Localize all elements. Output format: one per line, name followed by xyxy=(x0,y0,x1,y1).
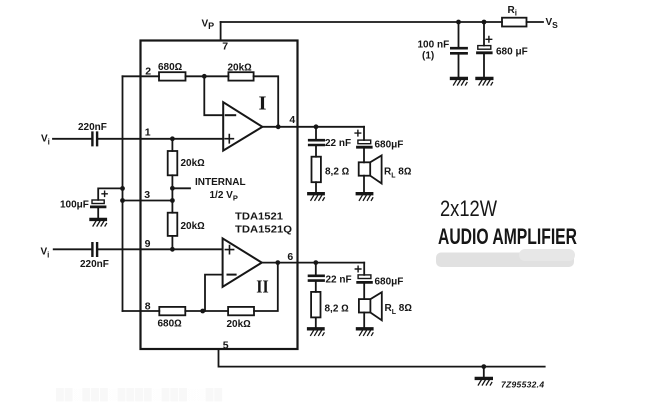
svg-text:2: 2 xyxy=(145,66,151,78)
resistor 8.2ohm ch1 xyxy=(312,157,321,183)
speaker RL ch2 xyxy=(359,292,382,320)
wire: 680 to 20k pin8 row xyxy=(185,310,228,312)
wire: inverting input op-amp I xyxy=(204,76,223,115)
svg-text:220nF: 220nF xyxy=(80,259,109,270)
node: pin3 junction at 20k xyxy=(170,198,175,203)
minus sign op-amp II xyxy=(228,274,236,276)
wire: pin 5 to bottom rail xyxy=(219,349,545,367)
svg-text:100μF: 100μF xyxy=(60,200,89,211)
svg-text:I: I xyxy=(259,93,267,115)
resistor Ri xyxy=(502,18,527,27)
wire: 20k v1 bottom lead to pin3 xyxy=(171,175,173,200)
ground: under 680uF top xyxy=(477,78,493,85)
wire: pin 2 row into 680ohm xyxy=(123,75,160,77)
svg-text:II: II xyxy=(256,277,268,297)
node: pin3 junction on bus xyxy=(120,198,125,203)
wire: speaker ch2 to ground xyxy=(363,313,365,328)
svg-text:8: 8 xyxy=(145,300,151,312)
svg-text:(1): (1) xyxy=(422,51,434,62)
svg-text:6: 6 xyxy=(287,251,293,263)
svg-text:RL 8Ω: RL 8Ω xyxy=(385,303,413,316)
svg-text:1: 1 xyxy=(145,126,151,138)
svg-text:8,2 Ω: 8,2 Ω xyxy=(325,166,350,177)
wire: internal stub xyxy=(172,187,190,189)
node: pin1 / 20k junction xyxy=(170,136,175,141)
wire: input Vi2 row xyxy=(54,248,223,250)
node: internal half-Vp node xyxy=(170,186,175,191)
svg-text:1/2 VP: 1/2 VP xyxy=(210,190,238,203)
capacitor 22nF ch2 xyxy=(309,276,324,281)
svg-text:RL 8Ω: RL 8Ω xyxy=(384,167,412,180)
svg-text:680 μF: 680 μF xyxy=(496,46,528,57)
capacitor 680uF top (electrolytic) xyxy=(478,37,492,53)
wire: ground stem bottom xyxy=(483,367,485,378)
wire: pin 7 drop xyxy=(220,22,222,41)
capacitor 220nF ch2 xyxy=(92,243,97,256)
node: output I zobel junction xyxy=(314,124,319,129)
wire: output I row xyxy=(262,126,364,128)
node: output II feedback junction xyxy=(275,260,280,265)
resistor 20k vertical 2 xyxy=(168,213,178,236)
wire: 100uF to ground xyxy=(97,208,99,219)
wire: speaker ch1 to ground xyxy=(363,176,365,193)
node: 100uF junction on bus xyxy=(120,186,125,191)
wire: input Vi1 row xyxy=(53,138,223,140)
wire: top supply rail Vp xyxy=(221,21,543,23)
wire: inverting input op-amp II xyxy=(205,275,223,311)
svg-text:7Z95532.4: 7Z95532.4 xyxy=(501,380,544,390)
ground: speaker ch1 xyxy=(357,194,373,201)
capacitor 680uF ch1 (electrolytic) xyxy=(355,130,371,147)
capacitor 680uF ch2 (electrolytic) xyxy=(355,266,371,282)
svg-text:3: 3 xyxy=(144,189,150,201)
svg-text:680μF: 680μF xyxy=(375,277,404,288)
svg-text:680Ω: 680Ω xyxy=(158,319,183,330)
ground: under 100nF xyxy=(452,78,468,85)
svg-text:20kΩ: 20kΩ xyxy=(181,158,206,169)
minus sign op-amp I xyxy=(226,114,235,116)
wire: feedback right to output column xyxy=(254,76,279,127)
wire: 20k v2 bottom to pin9 xyxy=(171,236,173,249)
ground: zobel ch1 xyxy=(309,194,325,201)
node: junction top rail / 680uF xyxy=(482,20,487,25)
wire: left vertical bus x=122.5 xyxy=(122,76,124,311)
ground: speaker ch2 xyxy=(358,329,374,336)
wire: 680uF ch2 drop xyxy=(363,263,365,300)
node: pin9 junction xyxy=(170,247,175,252)
IC box TDA1521 xyxy=(141,41,298,350)
speaker RL ch1 xyxy=(359,155,382,183)
watermark gray block xyxy=(436,253,574,268)
svg-text:2x12W: 2x12W xyxy=(440,196,497,221)
svg-text:20kΩ: 20kΩ xyxy=(181,221,206,232)
svg-text:INTERNAL: INTERNAL xyxy=(195,177,246,188)
capacitor 100uF (electrolytic) xyxy=(91,191,107,207)
svg-text:8,2 Ω: 8,2 Ω xyxy=(325,304,350,315)
resistor 20k vertical 1 xyxy=(168,151,178,175)
op-amp U2 triangle II xyxy=(223,238,262,286)
svg-text:Vi: Vi xyxy=(41,247,50,260)
svg-text:7: 7 xyxy=(222,40,228,52)
wire: 8.2 ch2 to ground xyxy=(315,317,317,328)
resistor 20k feedback II xyxy=(228,307,254,315)
plus sign op-amp I xyxy=(225,135,233,143)
svg-text:220nF: 220nF xyxy=(78,122,107,133)
resistor 20k feedback I xyxy=(228,72,253,80)
wire: 680ohm to 20k feedback xyxy=(186,75,229,77)
plus sign op-amp II xyxy=(225,246,233,254)
wire: 20k v2 top lead xyxy=(171,201,173,213)
op-amp U1 triangle I xyxy=(223,102,262,150)
wire: pin 3 row xyxy=(123,200,173,202)
svg-text:TDA1521: TDA1521 xyxy=(235,211,283,222)
wire: output II row xyxy=(262,262,364,264)
node: output I feedback junction xyxy=(276,124,281,129)
wire: 8.2 ch1 to ground xyxy=(315,182,317,193)
svg-text:22 nF: 22 nF xyxy=(326,274,352,285)
svg-text:VP: VP xyxy=(202,19,215,32)
capacitor 220nF ch1 xyxy=(92,133,97,146)
resistor 8.2ohm ch2 xyxy=(311,292,320,318)
svg-text:AUDIO AMPLIFIER: AUDIO AMPLIFIER xyxy=(438,224,577,249)
svg-text:20kΩ: 20kΩ xyxy=(228,63,253,74)
wire: 100uF connection xyxy=(98,188,122,200)
capacitor C 100nF plates xyxy=(451,48,466,53)
svg-text:9: 9 xyxy=(145,238,151,250)
node: pin8 feedback junction xyxy=(200,309,205,314)
resistor 680ohm (pin2) xyxy=(159,72,186,80)
node: feedback junction xyxy=(202,74,207,79)
wire: pin 8 row xyxy=(123,310,160,312)
wire: 22nF ch1 branch xyxy=(315,127,317,157)
svg-text:22 nF: 22 nF xyxy=(325,138,351,149)
svg-text:Ri: Ri xyxy=(508,5,517,17)
node: output II zobel junction xyxy=(313,260,318,265)
svg-text:4: 4 xyxy=(289,114,295,126)
wire: 680uF ch1 drop xyxy=(363,127,365,163)
svg-text:TDA1521Q: TDA1521Q xyxy=(235,224,292,235)
svg-text:100 nF: 100 nF xyxy=(418,40,450,51)
resistor 680ohm (pin8) xyxy=(159,307,185,315)
wire: 100nF branch xyxy=(458,22,460,78)
wire: 22nF ch2 branch xyxy=(315,263,317,292)
ground: under 100uF xyxy=(91,219,107,226)
svg-text:Vi: Vi xyxy=(41,134,50,147)
ground: bottom rail xyxy=(476,378,492,385)
ground: zobel ch2 xyxy=(309,329,325,336)
capacitor 22nF ch1 xyxy=(309,140,324,145)
node: junction top rail / 100nF xyxy=(456,20,461,25)
svg-text:██░███░████░███░░██: ██░███░████░███░░██ xyxy=(56,387,223,402)
svg-text:5: 5 xyxy=(223,340,229,352)
svg-text:20kΩ: 20kΩ xyxy=(227,319,252,330)
svg-text:680Ω: 680Ω xyxy=(158,62,183,73)
wire: 20k v1 top lead xyxy=(171,139,173,151)
node: bottom rail ground junction xyxy=(481,364,486,369)
svg-text:VS: VS xyxy=(546,17,559,30)
svg-text:680μF: 680μF xyxy=(375,140,404,151)
wire: 20k II to output column xyxy=(254,263,278,311)
wire: 680uF top branch xyxy=(483,22,485,78)
